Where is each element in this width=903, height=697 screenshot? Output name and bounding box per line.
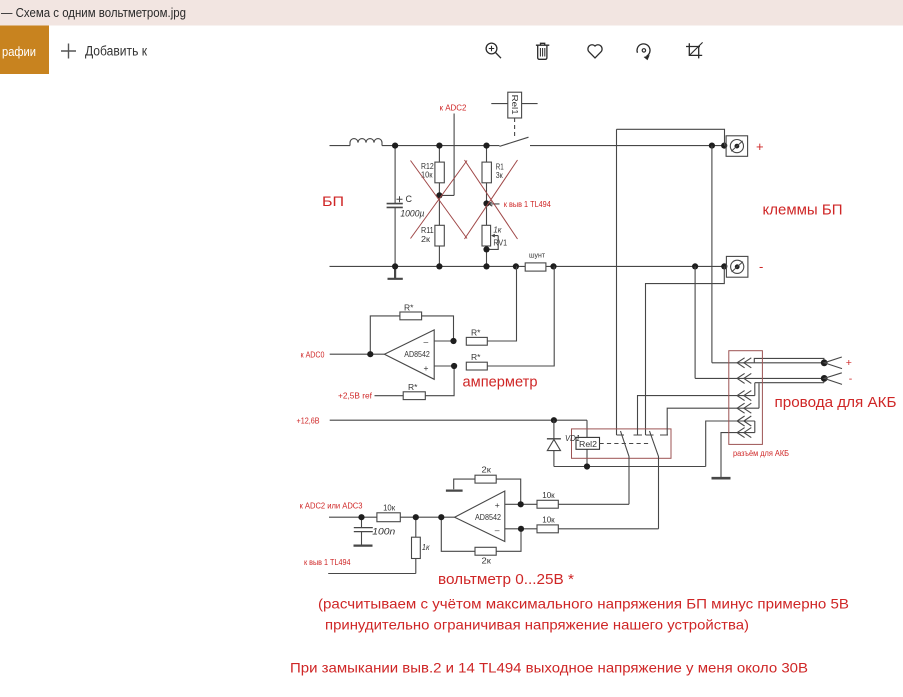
resistor R11 2k: [435, 195, 444, 266]
diode VD1: [547, 420, 561, 466]
svg-text:10к: 10к: [383, 502, 395, 512]
connector chevron pin4: [737, 403, 751, 413]
relay contact 1 blade: [621, 431, 630, 504]
svg-text:2к: 2к: [482, 556, 492, 566]
svg-text:1к: 1к: [493, 225, 502, 235]
connector chevron pin3: [737, 391, 751, 401]
wire R* to shunt right: [487, 266, 554, 366]
svg-text:рафии: рафии: [2, 45, 36, 59]
wire minus terminal to battery connector pin2: [694, 266, 696, 378]
add-to button: [61, 44, 76, 59]
svg-text:клеммы БП: клеммы БП: [763, 203, 843, 219]
resistor 10k to relay contact2: [537, 525, 558, 533]
svg-text:1к: 1к: [422, 542, 430, 552]
junction dot relay coil return: [584, 463, 590, 469]
svg-text:вольтметр 0...25В *: вольтметр 0...25В *: [438, 572, 574, 588]
svg-text:к ADC2: к ADC2: [440, 104, 467, 113]
svg-text:R*: R*: [404, 303, 414, 313]
svg-text:+: +: [756, 139, 764, 154]
svg-text:При замыкании выв.2 и 14 TL494: При замыкании выв.2 и 14 TL494 выходное …: [290, 660, 808, 676]
voltmeter black labels: [372, 464, 555, 565]
relay Rel2 outline: [572, 429, 672, 458]
svg-text:+12,6В: +12,6В: [297, 416, 320, 425]
potentiometer RV1 1k: [482, 204, 498, 267]
relay contact 1 stationary: [617, 434, 643, 436]
svg-text:10к: 10к: [542, 514, 555, 524]
junction dots top rail: [392, 143, 727, 149]
svg-text:к выв 1 TL494: к выв 1 TL494: [504, 200, 551, 209]
resistor R* non-inverting input: [466, 362, 487, 370]
wire to TL494 pin1: [328, 573, 416, 575]
RELAY 2 AND BATTERY CONNECTOR SECTION: [547, 351, 842, 529]
resistor 10k input: [377, 513, 400, 522]
svg-text:–: –: [495, 525, 500, 535]
resistor R* ref: [403, 392, 425, 400]
resistor 1k: [412, 517, 421, 573]
wire connector pin3 to relay contact1: [638, 396, 755, 435]
svg-text:R*: R*: [471, 327, 481, 337]
toolbar icon delete: [536, 43, 549, 59]
wire feedback loop: [370, 316, 453, 354]
cross-out X over R12 R11: [411, 160, 518, 239]
svg-text:амперметр: амперметр: [463, 375, 538, 391]
terminal plus: [726, 136, 748, 157]
svg-text:Добавить к: Добавить к: [85, 44, 147, 59]
svg-text:+: +: [846, 357, 852, 369]
inductor L1: [350, 139, 382, 146]
wire non-inverting stub: [505, 503, 521, 505]
svg-text:-: -: [759, 259, 763, 274]
svg-text:C: C: [406, 194, 413, 204]
svg-text:+2,5В ref: +2,5В ref: [338, 392, 373, 401]
svg-text:+: +: [424, 363, 429, 373]
node A: ADC2 tap wire: [439, 114, 454, 196]
wire top positive rail: [330, 145, 727, 147]
switch contact of Rel1: [500, 137, 529, 146]
svg-text:провода для АКБ: провода для АКБ: [775, 395, 897, 411]
svg-text:к ADC0: к ADC0: [301, 351, 325, 360]
wire connector pin5 to coil return: [706, 421, 755, 467]
cross-out X over R1 RV1: [465, 160, 518, 239]
relay Rel2 coil label box: [576, 437, 600, 449]
svg-text:принудительно ограничивая напр: принудительно ограничивая напряжение наш…: [325, 616, 749, 632]
junction dots voltmeter: [358, 501, 524, 532]
wire stub to TL494 pin 1: [488, 202, 500, 206]
svg-text:R*: R*: [471, 352, 481, 362]
wire connector pin6 to ground: [721, 433, 755, 478]
svg-text:к выв 1 TL494: к выв 1 TL494: [304, 558, 351, 567]
wire connector pin4 to relay contact2: [667, 408, 759, 435]
RED LABELS: [290, 104, 897, 676]
wire terminal loop top: [617, 129, 725, 145]
wire inverting stub: [505, 528, 521, 530]
resistor R12 10k: [435, 146, 444, 196]
svg-text:10к: 10к: [542, 490, 555, 500]
op-amp labels: [404, 303, 481, 392]
wire inverting input stub: [434, 340, 453, 342]
junction dots ammeter: [367, 338, 457, 369]
connector chevron pin1: [737, 358, 751, 368]
svg-text:разъём для АКБ: разъём для АКБ: [733, 449, 789, 458]
wire plus terminal to battery connector pin1: [711, 146, 713, 363]
capacitor 100n: [354, 517, 373, 545]
svg-text:R*: R*: [408, 382, 418, 392]
capacitor C 1000u: [387, 146, 403, 267]
svg-text:100n: 100n: [372, 526, 395, 537]
PSU output terminals and right-side wiring: [617, 129, 748, 435]
photos app orange button: [0, 26, 49, 75]
svg-text:–: –: [424, 337, 429, 347]
relay Rel1: [491, 92, 537, 136]
svg-text:VD1: VD1: [565, 433, 580, 443]
svg-text:1000µ: 1000µ: [400, 208, 424, 219]
battery plus fork: [821, 359, 828, 366]
VOLTMETER SECTION: [328, 475, 658, 573]
connector chevron pin6: [737, 428, 751, 438]
svg-text:AD8542: AD8542: [475, 512, 501, 522]
svg-text:БП: БП: [322, 193, 344, 209]
shunt resistor: [525, 263, 546, 271]
wire minus loop to relay contact 2: [646, 266, 725, 435]
title bar: [0, 0, 903, 26]
svg-text:+: +: [495, 500, 500, 510]
resistor R1 3k: [482, 146, 491, 204]
resistor R* inverting input: [466, 337, 487, 345]
wire ADC input line: [329, 516, 455, 518]
svg-text:2к: 2к: [482, 464, 492, 474]
wire main vertical to relay contact 1: [616, 129, 618, 435]
wire ADC0 output: [330, 353, 385, 355]
wire R* to shunt left: [487, 266, 516, 341]
svg-text:шунт: шунт: [529, 251, 546, 260]
battery minus fork: [821, 375, 828, 382]
wire relay coil feed: [586, 420, 588, 466]
wire minus cable second conductor: [755, 378, 824, 382]
op-amp U1 AD8542 (ammeter, pointing left): [384, 330, 434, 379]
resistor 2k feedback: [441, 517, 521, 551]
connector housing разъём для АКБ: [729, 351, 763, 445]
wire coil return rail: [554, 466, 706, 468]
wire bottom negative rail: [330, 265, 725, 267]
wire non-inverting input stub: [434, 365, 454, 367]
toolbar icon crop: [686, 42, 703, 58]
connector internal links: [755, 383, 759, 433]
svg-text:к ADC2 или ADC3: к ADC2 или ADC3: [300, 501, 363, 510]
svg-text:3к: 3к: [496, 170, 503, 180]
svg-text:(расчитываем с учётом максимал: (расчитываем с учётом максимального напр…: [318, 596, 849, 612]
relay contact 2 stationary: [646, 434, 669, 436]
toolbar icon rotate: [637, 44, 650, 60]
svg-text:AD8542: AD8542: [404, 349, 430, 359]
relay Rel2 linkage dashed: [600, 443, 651, 445]
ground below capacitor: [388, 266, 403, 278]
ground bar battery minus sense: [712, 477, 731, 480]
wire 2.5V ref: [375, 366, 455, 396]
wire +12.6V rail: [330, 417, 587, 423]
wire pin1 through connector to plus fork: [712, 362, 824, 364]
op-amp U2 AD8542 (voltmeter, pointing left): [455, 491, 505, 542]
resistor 10k to relay contact1: [537, 500, 558, 508]
svg-text:-: -: [849, 373, 853, 385]
connector chevron pin2: [737, 373, 751, 383]
SCHEMATIC: [330, 92, 728, 279]
wire plus cable second conductor: [754, 358, 824, 362]
toolbar icon favourite heart: [588, 45, 602, 58]
resistor 2k to ground: [454, 479, 521, 504]
terminal minus: [726, 256, 748, 277]
AMMETER SECTION: [330, 266, 555, 399]
ground bar op-amp: [446, 490, 463, 492]
junction dots bottom rail: [392, 263, 727, 269]
resistor R* feedback: [400, 312, 422, 320]
junction dots divider nodes: [436, 192, 489, 252]
svg-text:Rel1: Rel1: [510, 95, 520, 115]
svg-text:2к: 2к: [421, 234, 430, 244]
connector chevron pin5: [737, 416, 751, 426]
svg-text:— Схема с одним вольтметром.jp: — Схема с одним вольтметром.jpg: [1, 6, 186, 20]
wire pin2 through connector to minus fork: [695, 377, 824, 379]
relay contact 2 blade: [650, 431, 659, 529]
toolbar icon zoom: [486, 43, 501, 58]
svg-text:RV1: RV1: [493, 237, 507, 247]
svg-text:Rel2: Rel2: [579, 439, 597, 449]
